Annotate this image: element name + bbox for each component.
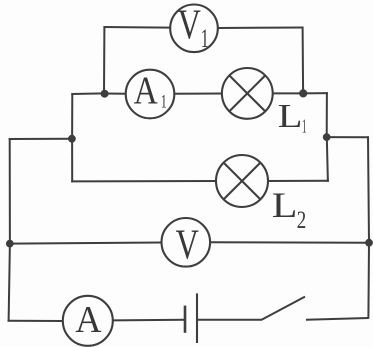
wire top-left vertical <box>103 27 105 94</box>
node A junction dot <box>101 90 109 98</box>
svg-text:1: 1 <box>302 116 307 138</box>
svg-text:L: L <box>272 185 298 225</box>
wire left mid vertical (node A branch down) <box>71 93 73 138</box>
node E junction dot on left rail <box>6 240 14 248</box>
node B junction dot <box>299 89 307 97</box>
wire L2 row left <box>71 180 217 182</box>
right rail vertical <box>368 136 369 318</box>
wire right corner down to node C <box>326 92 328 137</box>
wire row2 left stub <box>71 92 105 95</box>
svg-text:A: A <box>75 299 101 341</box>
wire node D down to L2 row <box>71 139 73 183</box>
svg-text:V: V <box>176 223 199 269</box>
wire lamp L1 to node B <box>273 92 303 94</box>
voltmeter V1 <box>170 3 218 53</box>
wire node D to left rail <box>9 138 72 140</box>
wire bottom row left <box>8 320 64 322</box>
wire A to battery <box>113 319 186 322</box>
wire top-right horizontal <box>218 27 304 30</box>
svg-text:V: V <box>178 3 201 49</box>
svg-text:1: 1 <box>161 92 167 113</box>
wire V row left <box>10 243 163 244</box>
svg-text:1: 1 <box>201 24 209 53</box>
ammeter A <box>63 296 113 346</box>
left rail vertical <box>9 138 10 321</box>
svg-text:2: 2 <box>297 205 307 234</box>
node D junction dot <box>68 135 76 143</box>
wire V row right <box>210 241 370 244</box>
wire L2 right corner up to node C <box>327 137 328 182</box>
voltmeter V <box>162 218 211 269</box>
lamp L2 <box>216 155 268 207</box>
lamp L1 <box>222 68 273 119</box>
switch S <box>262 297 369 320</box>
svg-text:L: L <box>278 98 303 135</box>
wire A1 to lamp L1 <box>174 93 222 95</box>
wire L2 row right <box>267 180 329 182</box>
node F junction dot on right rail <box>365 239 373 247</box>
label L2 <box>272 185 307 234</box>
svg-text:A: A <box>134 69 158 112</box>
wire node C to right rail <box>327 136 369 138</box>
wire battery to switch <box>198 319 263 321</box>
node C junction dot <box>323 133 331 141</box>
ammeter A1 <box>126 69 175 118</box>
wire right descending to node B <box>302 27 305 94</box>
battery <box>185 293 197 343</box>
wire node A to ammeter A1 <box>104 93 127 95</box>
label L1 <box>278 98 307 137</box>
wire node B to right corner <box>303 92 328 94</box>
wire top-left horizontal <box>103 26 170 29</box>
